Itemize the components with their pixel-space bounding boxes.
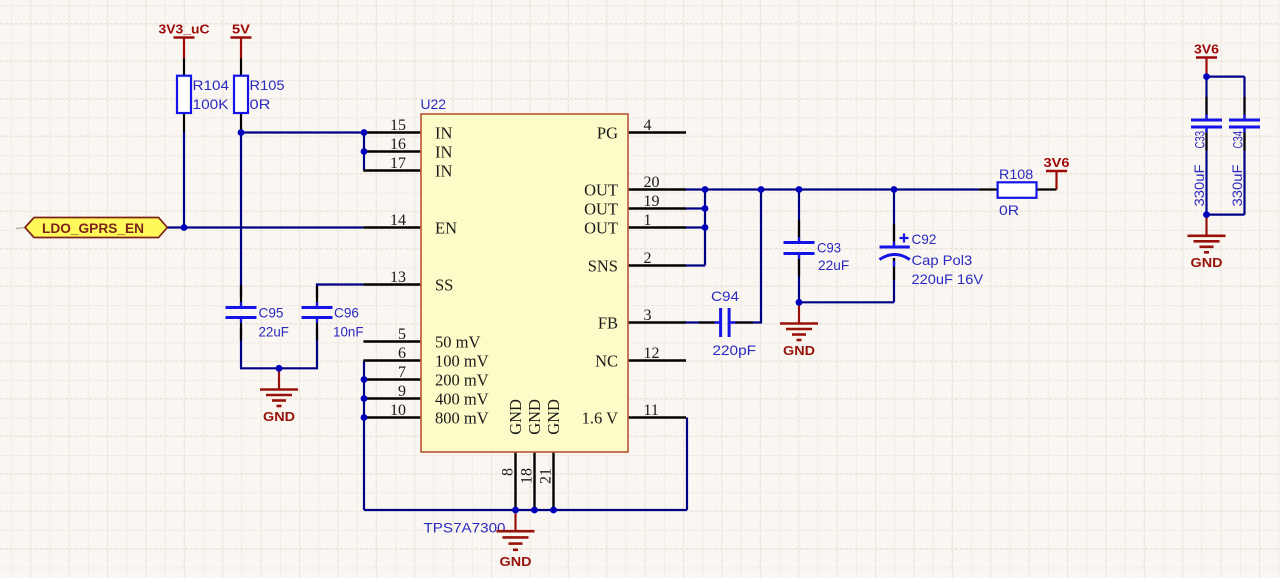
wire EN net from flag to pin 14 — [167, 226, 363, 228]
svg-text:3V6: 3V6 — [1194, 42, 1219, 57]
component pin leads — [184, 59, 1245, 341]
svg-text:FB: FB — [598, 314, 618, 333]
svg-text:NC: NC — [595, 352, 618, 371]
U22 left pin names — [435, 124, 489, 428]
ground at C95 C96 — [260, 368, 298, 424]
svg-text:IN: IN — [435, 143, 452, 162]
C93 value label 22uF — [818, 257, 849, 273]
svg-text:0R: 0R — [250, 96, 271, 112]
U22 part number label TPS7A7300 — [424, 520, 506, 536]
svg-text:10nF: 10nF — [333, 324, 364, 340]
wire FB pin 3 to C94 — [686, 321, 719, 323]
wire OUT bus vertical to SNS — [704, 190, 706, 266]
svg-text:C96: C96 — [334, 305, 359, 321]
ground under U22 — [497, 510, 535, 569]
power 3V3_uC — [159, 22, 211, 59]
svg-text:330uF: 330uF — [1191, 165, 1207, 207]
svg-text:C33: C33 — [1192, 131, 1208, 149]
svg-text:400 mV: 400 mV — [435, 390, 489, 409]
svg-text:TPS7A7300: TPS7A7300 — [424, 520, 506, 536]
wire mV-pin bundle vertical — [363, 361, 365, 511]
wire IN pin bundle vertical — [363, 133, 365, 171]
svg-text:800 mV: 800 mV — [435, 409, 489, 428]
wire pin 1 to OUT bus — [686, 226, 705, 228]
capacitor C33 — [1191, 120, 1222, 127]
svg-text:R108: R108 — [999, 166, 1033, 182]
svg-text:0R: 0R — [999, 202, 1019, 218]
svg-text:OUT: OUT — [584, 219, 618, 238]
ground at C93 — [780, 302, 818, 358]
power 3V6 at C33 — [1194, 42, 1219, 76]
svg-text:U22: U22 — [421, 96, 447, 112]
wire C93 bottom — [798, 255, 800, 302]
U22 bottom pin numbers rotated — [499, 468, 554, 484]
svg-text:21: 21 — [537, 468, 554, 484]
svg-text:C93: C93 — [817, 240, 841, 256]
ground at C33 C34 — [1188, 215, 1226, 271]
wire C96 to SS pin 13 — [317, 285, 363, 298]
C33 designator label rotated — [1192, 131, 1208, 149]
wire C95/C96 ground junction — [240, 367, 318, 369]
wire C94 to OUT net — [731, 190, 761, 323]
svg-text:3: 3 — [644, 307, 652, 324]
capacitor C94 — [721, 308, 730, 337]
wire OUT net horizontal — [686, 188, 979, 190]
svg-text:5: 5 — [398, 326, 406, 343]
svg-text:50 mV: 50 mV — [435, 333, 480, 352]
svg-text:1.6 V: 1.6 V — [582, 409, 618, 428]
svg-text:17: 17 — [390, 155, 406, 172]
svg-text:14: 14 — [390, 212, 406, 229]
wire C34 bottom link — [1207, 129, 1245, 215]
svg-text:220pF: 220pF — [713, 342, 757, 358]
svg-text:GND: GND — [263, 409, 295, 424]
svg-text:GND: GND — [506, 399, 525, 435]
svg-text:IN: IN — [435, 162, 452, 181]
op-amp U22 body TPS7A7300 — [421, 114, 628, 452]
C92 value label 220uF 16V — [912, 271, 984, 287]
C95 designator label — [259, 305, 284, 321]
wire C33 bottom to ground — [1205, 129, 1207, 215]
wire bottom ground bus — [364, 509, 687, 511]
svg-text:19: 19 — [644, 193, 660, 210]
svg-text:12: 12 — [644, 345, 660, 362]
wire pin 19 to OUT bus — [686, 207, 705, 209]
wire pin 11 column — [686, 418, 688, 511]
wire pin 2 SNS to OUT bus — [686, 264, 705, 266]
C94 value label 220pF — [713, 342, 757, 358]
wire C93/C92 ground link — [799, 301, 894, 303]
svg-text:LDO_GPRS_EN: LDO_GPRS_EN — [42, 221, 144, 237]
C33 value label 330uF rotated — [1191, 165, 1207, 207]
wire C96 bottom — [316, 328, 318, 368]
svg-text:GND: GND — [783, 343, 815, 358]
svg-text:C34: C34 — [1230, 131, 1246, 149]
C34 value label 330uF rotated — [1229, 165, 1245, 207]
svg-text:3V6: 3V6 — [1044, 155, 1070, 170]
svg-text:GND: GND — [544, 399, 563, 435]
svg-text:SNS: SNS — [588, 257, 618, 276]
U22 bottom GND pin stubs — [516, 452, 554, 510]
wire 5V column down to C95 — [240, 133, 242, 298]
U22 designator label — [421, 96, 447, 112]
wire C95 bottom — [240, 328, 242, 368]
R104 value label 100K — [193, 96, 230, 112]
svg-text:100K: 100K — [193, 96, 230, 112]
R105 designator label — [250, 77, 285, 93]
svg-text:4: 4 — [644, 117, 652, 134]
svg-text:GND: GND — [1191, 255, 1223, 270]
svg-text:22uF: 22uF — [259, 324, 289, 340]
U22 right pin stubs — [628, 133, 686, 418]
C96 value label 10nF — [333, 324, 364, 340]
svg-text:6: 6 — [398, 345, 406, 362]
svg-text:10: 10 — [390, 402, 406, 419]
svg-text:OUT: OUT — [584, 200, 618, 219]
svg-text:GND: GND — [525, 399, 544, 435]
svg-text:7: 7 — [398, 364, 406, 381]
svg-text:18: 18 — [518, 468, 535, 484]
U22 left pin stubs — [363, 133, 421, 418]
svg-text:11: 11 — [644, 402, 659, 419]
R108 designator label — [999, 166, 1033, 182]
wire 3V6 to C33 C34 top — [1207, 75, 1245, 119]
svg-text:13: 13 — [390, 269, 406, 286]
R105 value label 0R — [250, 96, 271, 112]
capacitor C93 — [784, 243, 815, 254]
svg-text:20: 20 — [644, 174, 660, 191]
svg-text:3V3_uC: 3V3_uC — [159, 22, 211, 37]
svg-text:GND: GND — [500, 554, 532, 569]
C96 designator label — [334, 305, 359, 321]
svg-text:SS: SS — [435, 276, 453, 295]
svg-text:5V: 5V — [232, 22, 250, 37]
U22 left pin numbers — [390, 117, 406, 419]
svg-text:8: 8 — [499, 468, 516, 476]
svg-text:R104: R104 — [193, 77, 230, 93]
svg-text:C92: C92 — [912, 231, 937, 247]
svg-text:15: 15 — [390, 117, 406, 134]
resistor R105 — [234, 76, 248, 113]
svg-text:220uF 16V: 220uF 16V — [912, 271, 984, 287]
power 5V — [231, 22, 252, 59]
capacitor C96 — [302, 308, 333, 318]
svg-text:C94: C94 — [711, 288, 739, 304]
svg-text:IN: IN — [435, 124, 452, 143]
wire C93 top — [798, 190, 800, 242]
U22 right pin numbers — [644, 117, 660, 419]
C93 designator label — [817, 240, 841, 256]
svg-text:16: 16 — [390, 136, 406, 153]
C92 type label Cap Pol3 — [912, 252, 973, 268]
capacitor C95 — [226, 308, 257, 318]
power 3V6 at R108 — [1044, 155, 1070, 190]
svg-text:330uF: 330uF — [1229, 165, 1245, 207]
svg-text:200 mV: 200 mV — [435, 371, 489, 390]
wire C92 bottom — [893, 258, 895, 302]
svg-text:2: 2 — [644, 250, 652, 267]
U22 GND pin names rotated — [506, 399, 563, 435]
svg-text:EN: EN — [435, 219, 457, 238]
C92 designator label — [912, 231, 937, 247]
net label LDO_GPRS_EN — [16, 218, 167, 238]
svg-text:PG: PG — [597, 124, 618, 143]
wire R104 bottom to EN net — [183, 132, 185, 228]
R108 value label 0R — [999, 202, 1019, 218]
resistor R104 — [177, 76, 191, 113]
polarized capacitor C92 — [880, 234, 910, 260]
svg-text:22uF: 22uF — [818, 257, 849, 273]
C94 designator label — [711, 288, 739, 304]
C34 designator label rotated — [1230, 131, 1246, 149]
R104 designator label — [193, 77, 230, 93]
wire R105 bottom to IN pins — [241, 131, 364, 133]
svg-text:9: 9 — [398, 383, 406, 400]
U22 right pin names — [582, 124, 618, 428]
capacitor C34 — [1229, 120, 1260, 127]
svg-text:Cap Pol3: Cap Pol3 — [912, 252, 973, 268]
svg-text:C95: C95 — [259, 305, 284, 321]
C95 value label 22uF — [259, 324, 289, 340]
svg-text:R105: R105 — [250, 77, 285, 93]
svg-text:100 mV: 100 mV — [435, 352, 489, 371]
svg-text:OUT: OUT — [584, 181, 618, 200]
wire C92 top — [893, 190, 895, 246]
resistor R108 — [998, 182, 1037, 198]
svg-text:1: 1 — [644, 212, 652, 229]
